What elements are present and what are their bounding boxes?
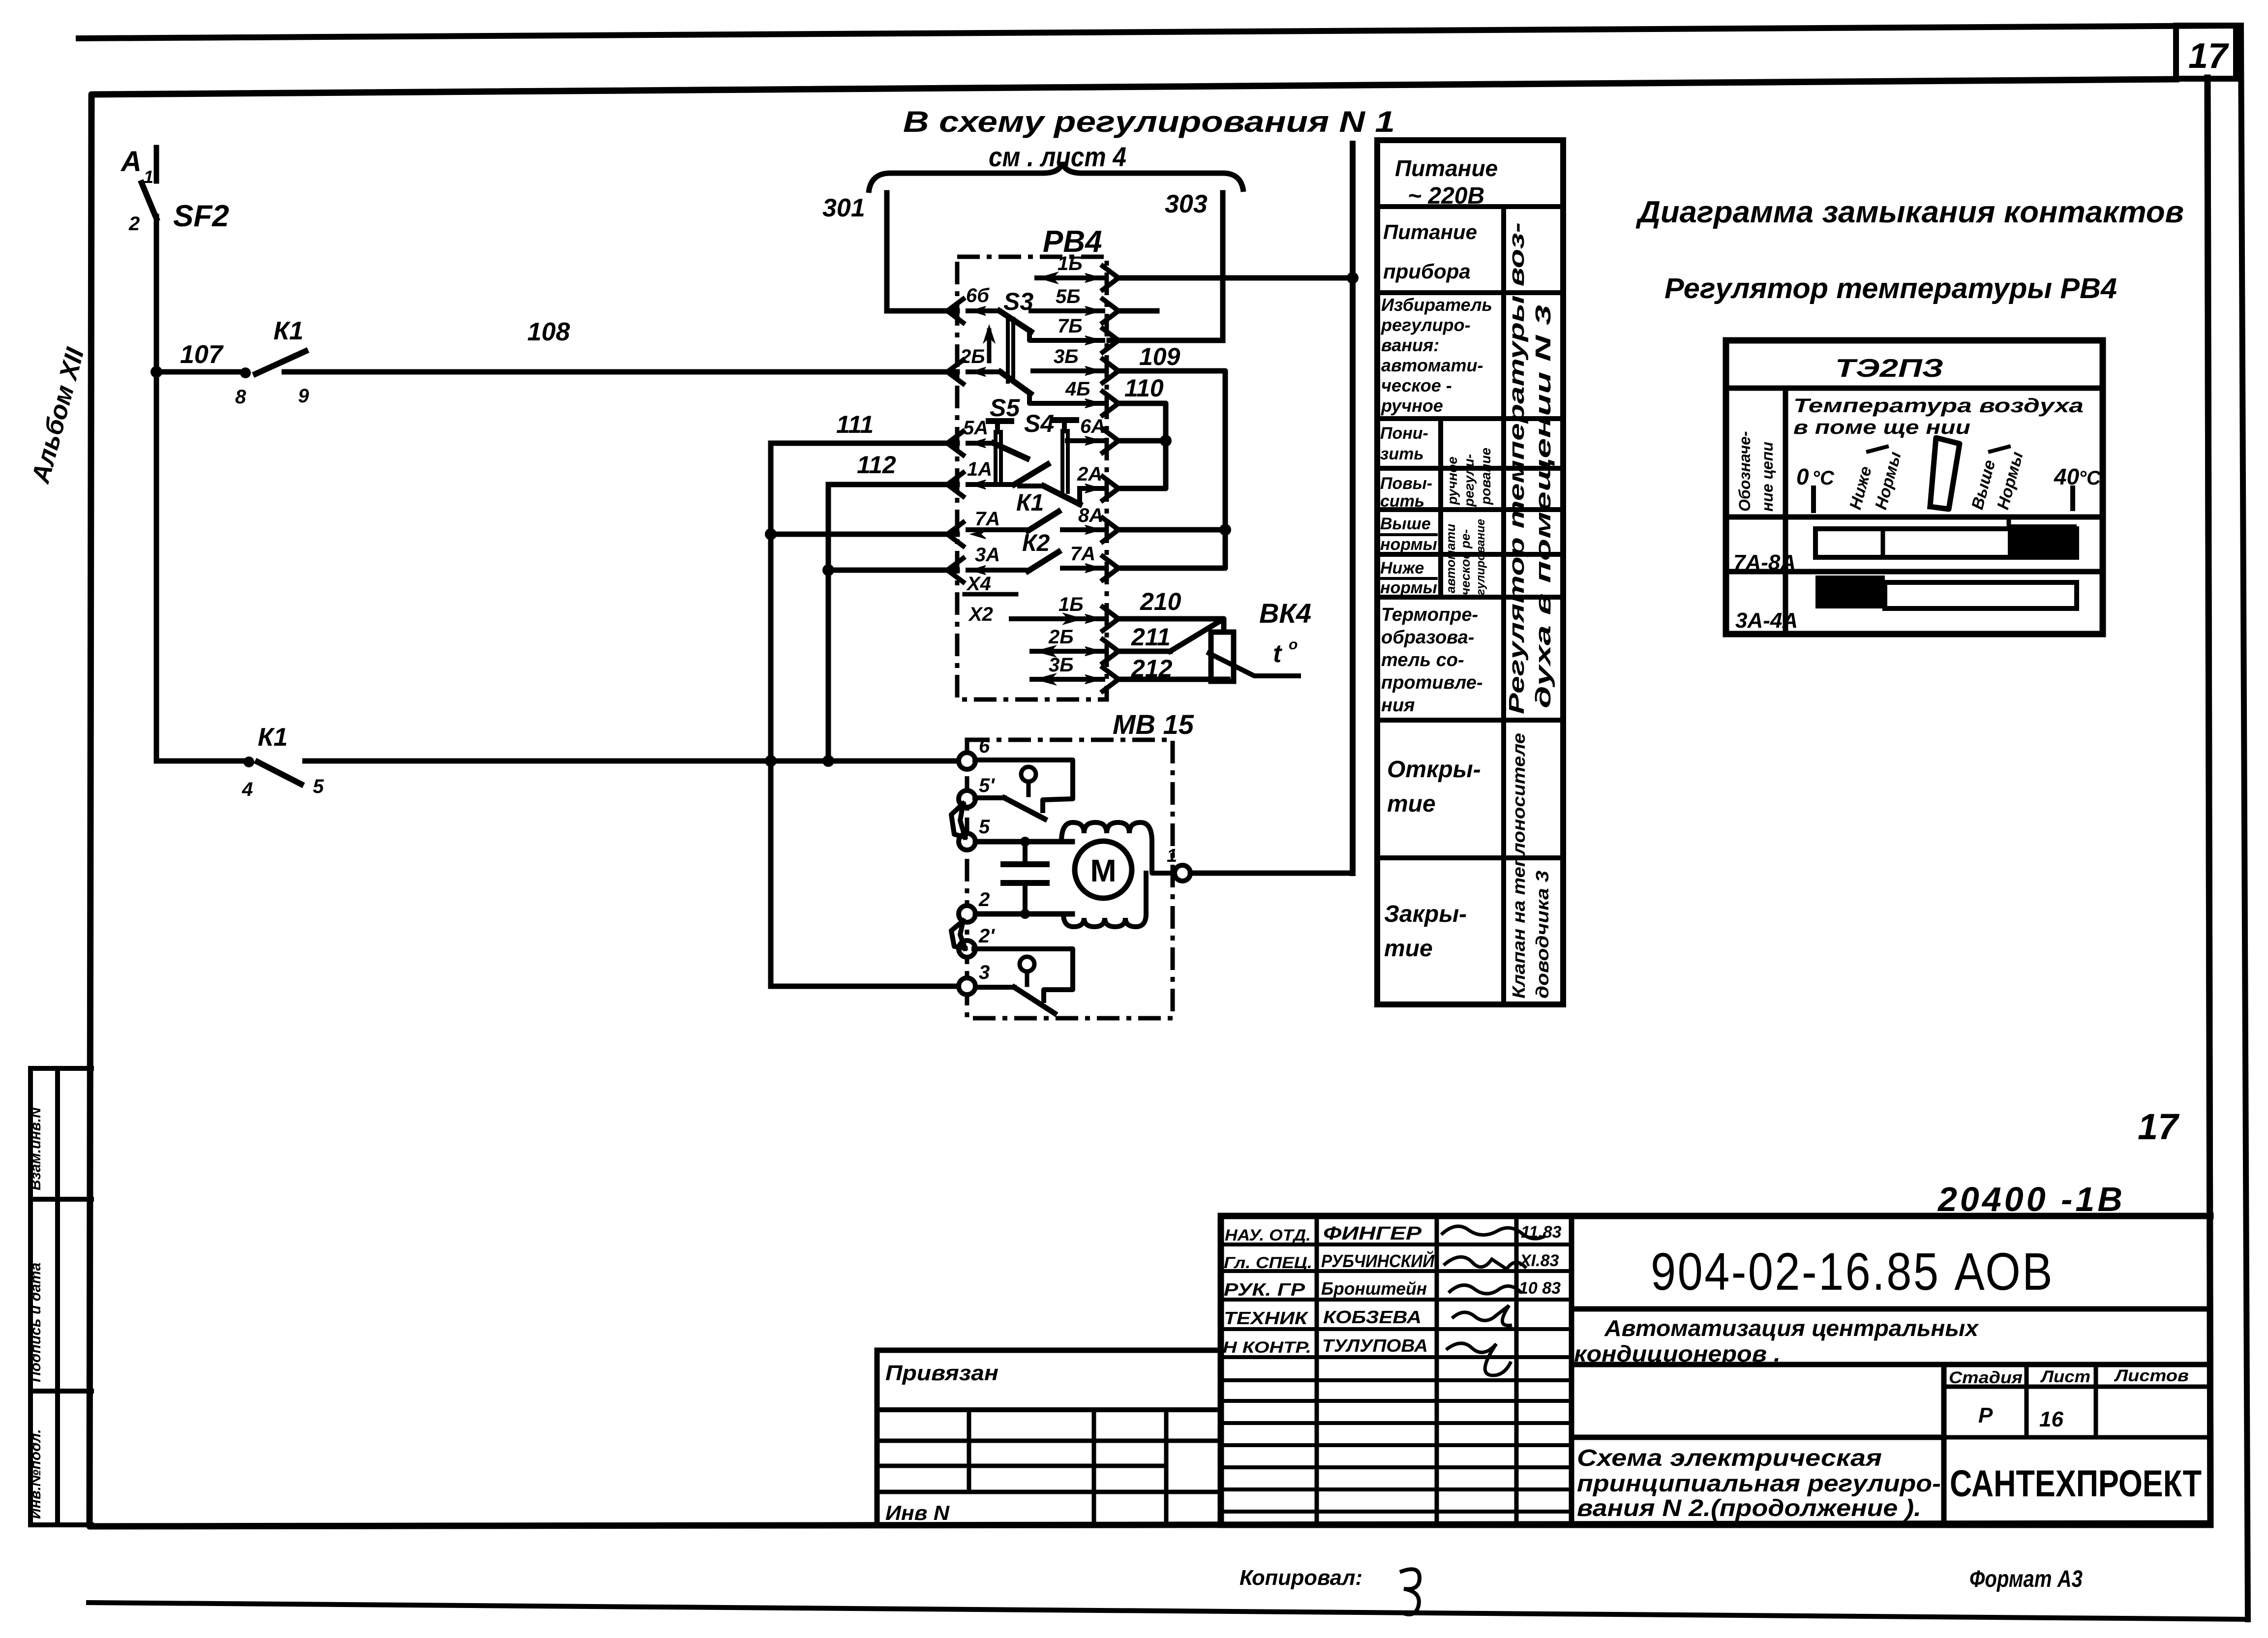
handwritten doc number 20400-1B xyxy=(1937,1180,2125,1218)
legend row power 220V xyxy=(1395,155,1498,209)
svg-text:Р: Р xyxy=(1978,1403,1993,1427)
svg-text:301: 301 xyxy=(822,194,865,222)
svg-text:Выше: Выше xyxy=(1380,515,1431,533)
PB4 right terminal 7Б chevron xyxy=(1103,329,1119,352)
svg-text:Пони-: Пони- xyxy=(1380,424,1428,443)
title block outer frame xyxy=(1221,1216,2210,1525)
svg-text:в поме ще нии: в поме ще нии xyxy=(1793,417,1970,438)
svg-text:Повы-: Повы- xyxy=(1380,474,1432,493)
label S5 xyxy=(990,394,1020,422)
privyazan grid columns xyxy=(969,1410,1166,1525)
wire from SF2 to contact K1(4-5) xyxy=(156,758,249,764)
svg-text:вания:: вания: xyxy=(1381,335,1439,355)
svg-text:ческое ре-: ческое ре- xyxy=(1458,529,1473,595)
PB4 pin line 5B xyxy=(1031,306,1103,315)
svg-text:образова-: образова- xyxy=(1381,627,1474,648)
svg-text:3Б: 3Б xyxy=(1054,346,1079,367)
svg-text:SF2: SF2 xyxy=(173,199,229,233)
TE2P3 table frame xyxy=(1726,340,2103,634)
contact K1 (4-5) blade xyxy=(258,762,301,784)
svg-text:2': 2' xyxy=(978,925,995,947)
stadia list listov verticals xyxy=(1944,1365,2096,1525)
jumper link 5'-5 xyxy=(951,804,965,837)
wire 6B internal xyxy=(968,308,999,313)
document stamp column box xyxy=(30,1068,91,1525)
signature row2 position xyxy=(1224,1254,1312,1272)
svg-text:16: 16 xyxy=(2039,1407,2063,1431)
svg-text:МВ 15: МВ 15 xyxy=(1113,709,1194,740)
svg-text:8А: 8А xyxy=(1078,505,1103,526)
legend rotated automatic regulation xyxy=(1443,519,1487,595)
signature row4 name Kobzeva xyxy=(1323,1307,1421,1327)
PB4 right terminal 5Б chevron xyxy=(1103,299,1119,323)
svg-text:6: 6 xyxy=(979,735,990,757)
label PB4 xyxy=(1043,225,1102,259)
brace over 301-303 xyxy=(869,162,1243,193)
power riser vertical wire xyxy=(1350,144,1356,873)
legend row above norm xyxy=(1380,515,1437,554)
wire 212 to BK4 bottom xyxy=(1117,677,1228,682)
PB4 left terminal label 3А xyxy=(975,544,1000,566)
legend rotated valve caption line1 xyxy=(1509,733,1529,999)
svg-text:гулирование: гулирование xyxy=(1474,519,1487,595)
svg-text:доводчика 3: доводчика 3 xyxy=(1532,871,1552,999)
label BK4 xyxy=(1259,598,1311,629)
wire to PB4 7A xyxy=(771,532,957,537)
capacitor leads xyxy=(1020,837,1030,919)
svg-text:Подпись и дата: Подпись и дата xyxy=(28,1263,44,1382)
svg-text:Ниже: Ниже xyxy=(1380,559,1424,577)
title block signature column lines xyxy=(1317,1216,1572,1525)
legend table outer frame xyxy=(1377,140,1563,1004)
svg-text:3А: 3А xyxy=(975,544,1000,566)
MB15 terminal 2 label xyxy=(978,889,990,910)
value 16 xyxy=(2039,1407,2063,1431)
label 112 xyxy=(857,451,896,479)
wire 6A branch xyxy=(1117,438,1166,444)
PB4 pin line 3B lower xyxy=(1032,674,1103,685)
header Stadia xyxy=(1949,1368,2023,1387)
svg-text:автомати-: автомати- xyxy=(1381,355,1483,375)
limit switch lower roller xyxy=(1020,957,1034,985)
svg-text:110: 110 xyxy=(1124,374,1164,402)
PB4 right terminal 1Б chevron xyxy=(1103,607,1119,631)
wire terminal 5 to motor xyxy=(975,839,1072,845)
svg-text:6А: 6А xyxy=(1080,416,1105,437)
svg-text:кондиционеров .: кондиционеров . xyxy=(1574,1341,1781,1366)
PB4 internal arrowhead at left terminal y=632 xyxy=(971,306,986,315)
wire 110 loop 4B-2A xyxy=(1117,403,1166,488)
svg-text:112: 112 xyxy=(857,451,896,479)
PB4 right terminal label 4Б xyxy=(1065,378,1090,400)
svg-text:1: 1 xyxy=(1167,846,1177,866)
svg-text:S3: S3 xyxy=(1003,288,1033,315)
PB4 pin line 2A xyxy=(1080,484,1103,504)
svg-text:М: М xyxy=(1090,853,1116,888)
TE2P3 row line xyxy=(1726,569,2103,575)
PB4 right terminal 1Б chevron xyxy=(1103,266,1119,290)
svg-text:К2: К2 xyxy=(1022,530,1050,556)
svg-text:7А-8А: 7А-8А xyxy=(1733,550,1796,575)
svg-text:17: 17 xyxy=(2138,1106,2180,1147)
svg-text:109: 109 xyxy=(1139,343,1180,370)
legend row selector xyxy=(1381,295,1492,416)
svg-text:Регулятор температуры РВ4: Регулятор температуры РВ4 xyxy=(1664,273,2117,304)
PB4 right terminal label 1Б xyxy=(1058,594,1084,615)
limit switch upper roller xyxy=(1021,767,1036,795)
svg-text:17: 17 xyxy=(2188,36,2229,76)
MB15 terminal 2' circle xyxy=(959,940,975,957)
svg-text:3А-4А: 3А-4А xyxy=(1735,608,1798,633)
contact K1 (8-9) blade xyxy=(256,351,305,374)
svg-text:S5: S5 xyxy=(990,394,1020,422)
wire 107 xyxy=(156,369,245,375)
label MB15 xyxy=(1113,709,1194,740)
svg-text:Диаграмма замыкания контакто: Диаграмма замыкания контактов xyxy=(1635,195,2184,229)
PB4 internal arrowhead at left terminal y=901 xyxy=(971,439,986,448)
sheet name line1 xyxy=(1577,1445,1882,1471)
svg-text:7А: 7А xyxy=(1070,543,1095,565)
wire riser 111 to MB15 terminal 3 xyxy=(771,984,959,989)
legend row power of device xyxy=(1383,220,1477,283)
svg-text:7Б: 7Б xyxy=(1058,315,1083,337)
svg-text:S4: S4 xyxy=(1024,410,1054,437)
limit switch lower frame xyxy=(974,949,1073,1001)
PB4 left terminal 2Б chevron xyxy=(947,360,963,384)
motor M circle xyxy=(1075,841,1132,898)
phase node A1 label xyxy=(120,146,153,187)
MB15 output terminal 1 circle xyxy=(1175,865,1190,881)
wire riser 111 vertical xyxy=(768,443,774,986)
node terminal 4 of K1 xyxy=(243,757,254,767)
TE2P3 row label 7A-8A xyxy=(1733,550,1796,575)
capacitor bottom plate xyxy=(1003,880,1047,886)
svg-text:0: 0 xyxy=(1796,464,1809,489)
svg-text:духа в помещении N 3: духа в помещении N 3 xyxy=(1531,305,1555,708)
svg-text:2: 2 xyxy=(978,889,990,910)
contact bar 7A-8A tick xyxy=(2007,517,2011,524)
label Inv N xyxy=(885,1501,950,1524)
signature row1 date xyxy=(1521,1223,1562,1242)
S3 mechanical linkage (double line) xyxy=(1008,319,1013,382)
svg-text:9: 9 xyxy=(298,385,309,407)
wire 2B internal xyxy=(968,369,1000,374)
MB15 terminal 6 circle xyxy=(959,753,975,769)
wire SF2 down to node 107 xyxy=(154,216,159,372)
svg-text:Привязан: Привязан xyxy=(885,1361,998,1385)
PB4 right terminal 8А chevron xyxy=(1103,518,1119,542)
PB4 internal arrowhead at left terminal y=985 xyxy=(971,480,986,489)
svg-text:Стадия: Стадия xyxy=(1949,1368,2023,1387)
TE2P3 rotated nizhe normy xyxy=(1846,447,1905,512)
svg-text:Лист: Лист xyxy=(2040,1367,2090,1386)
PB4 pin line 7A out xyxy=(1062,564,1103,573)
label t deg xyxy=(1273,637,1298,668)
svg-text:нормы: нормы xyxy=(1380,535,1437,554)
PB4 pin line 7B xyxy=(1029,331,1103,345)
frame right inner vertical xyxy=(2208,78,2210,1523)
svg-text:2Б: 2Б xyxy=(1048,626,1074,648)
PB4 left terminal label 7А xyxy=(975,508,1000,530)
contact blade to 2A xyxy=(1020,486,1080,504)
svg-text:Листов: Листов xyxy=(2114,1366,2189,1385)
PB4 right terminal label 3Б xyxy=(1049,654,1074,676)
PB4 left terminal label 2Б xyxy=(960,346,985,367)
label S4 xyxy=(1024,410,1054,437)
svg-text:4Б: 4Б xyxy=(1065,378,1090,400)
wire 1A internal with blade xyxy=(968,464,1048,485)
TE2P3 header temperature xyxy=(1793,395,2084,438)
label 108 xyxy=(527,318,570,346)
svg-text:ческое -: ческое - xyxy=(1381,375,1452,395)
switch S4 tee head xyxy=(1054,420,1076,492)
svg-text:тие: тие xyxy=(1387,791,1436,817)
legend table sub column divider xyxy=(1438,419,1443,597)
terminal label 8 xyxy=(235,386,246,408)
PB4 pin line 8A xyxy=(1062,525,1103,534)
PB4 right terminal 2Б chevron xyxy=(1103,639,1119,663)
PB4 right terminal label 6А xyxy=(1080,416,1105,437)
organization SANTEHPROEKT xyxy=(1950,1463,2202,1505)
svg-text:5: 5 xyxy=(313,776,324,797)
motor winding upper xyxy=(1061,822,1152,842)
stamp label Vzam.inv.N xyxy=(28,1107,44,1190)
legend row lower xyxy=(1380,424,1428,463)
legend row below norm xyxy=(1380,559,1437,597)
PB4 right terminal 6А chevron xyxy=(1103,429,1119,453)
contact bar 3A-4A outline xyxy=(1885,582,2077,608)
signature row3 name Bronshteyn xyxy=(1321,1278,1427,1299)
MB15 terminal 6 label xyxy=(979,735,990,757)
node terminal 8 of K1 xyxy=(240,367,251,378)
motor right lead xyxy=(1146,842,1175,914)
svg-text:Копировал:: Копировал: xyxy=(1240,1566,1362,1590)
junction 8A loop xyxy=(1219,524,1231,536)
legend rotated regulator caption line2 xyxy=(1531,305,1555,708)
svg-text:ручное: ручное xyxy=(1445,456,1460,505)
TE2P3 setpoint parallelogram xyxy=(1930,438,1960,509)
svg-text:5А: 5А xyxy=(963,417,988,439)
svg-text:Гл. СПЕЦ.: Гл. СПЕЦ. xyxy=(1224,1254,1312,1272)
note line 1 v shemu regulirovaniya xyxy=(903,105,1395,138)
svg-text:К1: К1 xyxy=(258,723,288,752)
svg-text:ТЭ2ПЗ: ТЭ2ПЗ xyxy=(1835,354,1943,383)
svg-text:2: 2 xyxy=(128,213,140,235)
svg-text:210: 210 xyxy=(1140,588,1181,615)
svg-text:5Б: 5Б xyxy=(1056,286,1081,307)
sheet outer top border line xyxy=(79,26,2237,38)
setpoint arrow up xyxy=(984,326,995,361)
MB15 terminal 5 circle xyxy=(959,833,975,850)
project name cell line xyxy=(1572,1362,2210,1367)
svg-text:o: o xyxy=(1289,637,1298,653)
PB4 pin line 1B bidirectional arrow xyxy=(1037,273,1103,283)
contact bar 7A-8A divider xyxy=(1881,529,1885,557)
svg-text:10 83: 10 83 xyxy=(1519,1279,1561,1298)
legend rotated valve caption line2 xyxy=(1532,871,1552,999)
svg-text:Х2: Х2 xyxy=(968,604,993,625)
signature squiggle Finger xyxy=(1441,1226,1546,1239)
capacitor top plate xyxy=(1003,861,1047,867)
wire 111 to PB4 5A xyxy=(771,441,957,446)
label K1 upper contact xyxy=(273,317,303,345)
wire SF2 vertical down to K1 4-5 row xyxy=(154,372,159,761)
svg-text:Откры-: Откры- xyxy=(1387,757,1481,783)
wire 301 to PB4 6B xyxy=(887,308,957,314)
svg-text:6б: 6б xyxy=(966,285,990,306)
limit switch upper blade xyxy=(975,798,1045,819)
privyazan grid frame xyxy=(877,1350,1221,1525)
valve actuator MB15 boundary (dash-dot) xyxy=(967,740,1173,1018)
svg-text:САНТЕХПРОЕКТ: САНТЕХПРОЕКТ xyxy=(1950,1463,2202,1505)
signature squiggle Bronshteyn xyxy=(1449,1285,1521,1294)
TE2P3 scale 0C xyxy=(1796,464,1835,489)
PB4 right terminal label 7А xyxy=(1070,543,1095,565)
PB4 left terminal 5А chevron xyxy=(947,431,963,455)
junction 3A xyxy=(822,564,834,576)
svg-text:Питание: Питание xyxy=(1395,155,1498,181)
svg-text:ручное: ручное xyxy=(1381,395,1443,416)
svg-text:противле-: противле- xyxy=(1381,672,1483,693)
PB4 internal arrowhead at left terminal y=756 xyxy=(971,367,986,376)
jumper link 2-2' xyxy=(951,921,965,948)
svg-text:212: 212 xyxy=(1131,655,1173,682)
diagram title line1 xyxy=(1635,195,2184,229)
svg-text:Инв N: Инв N xyxy=(885,1501,950,1524)
junction with riser 112 xyxy=(822,755,834,767)
svg-text:прибора: прибора xyxy=(1383,260,1471,283)
svg-text:ВК4: ВК4 xyxy=(1259,598,1311,629)
signature row2 date xyxy=(1519,1251,1559,1270)
signature squiggle Rubchinskiy xyxy=(1444,1257,1526,1269)
label 303 xyxy=(1165,190,1208,218)
switch S3 blade xyxy=(999,311,1031,332)
switch S5 tee head xyxy=(989,421,1011,481)
svg-text:КОБЗЕВА: КОБЗЕВА xyxy=(1323,1307,1421,1327)
junction 7A xyxy=(765,528,777,540)
svg-text:t: t xyxy=(1273,639,1283,668)
MB15 terminal 5 label xyxy=(979,816,990,838)
label K2 inside PB4 xyxy=(1022,530,1050,556)
svg-text:К1: К1 xyxy=(273,317,303,345)
svg-text:РУБЧИНСКИЙ: РУБЧИНСКИЙ xyxy=(1321,1250,1435,1271)
header Listov xyxy=(2114,1366,2189,1385)
svg-text:Обозначе-: Обозначе- xyxy=(1736,431,1754,512)
TE2P3 header row line xyxy=(1726,515,2103,520)
sheet bottom edge line xyxy=(89,1603,2248,1619)
svg-text:ние цепи: ние цепи xyxy=(1758,442,1776,512)
MB15 terminal 3 label xyxy=(979,962,990,983)
wire 108 to PB4 2B input xyxy=(284,369,957,375)
note line 2 sm list 4 xyxy=(989,141,1126,172)
svg-text:регули-: регули- xyxy=(1461,454,1477,507)
label S3 xyxy=(1003,288,1033,315)
svg-text:В схему регулирования N 1: В схему регулирования N 1 xyxy=(903,105,1395,138)
svg-text:107: 107 xyxy=(180,340,224,369)
contact bar 7A-8A outline xyxy=(1815,529,2077,557)
legend row raise xyxy=(1380,474,1432,511)
label Format A3 xyxy=(1969,1566,2083,1592)
signature row1 name Finger xyxy=(1323,1223,1422,1244)
BK4 sensor diagonal lead xyxy=(1209,653,1299,676)
wire 8A branch xyxy=(1117,527,1225,533)
svg-text:303: 303 xyxy=(1165,190,1208,218)
svg-text:Бронштейн: Бронштейн xyxy=(1321,1278,1427,1299)
sheet name line2 xyxy=(1577,1471,1941,1497)
legend rotated regulator caption line1 xyxy=(1505,222,1529,714)
limit switch lower blade xyxy=(976,987,1055,1013)
label 109 xyxy=(1139,343,1180,370)
PB4 right terminal 3Б chevron xyxy=(1103,667,1119,691)
PB4 right terminal 3Б chevron xyxy=(1103,359,1119,383)
wire 112 to PB4 1A xyxy=(828,482,957,487)
svg-text:сить: сить xyxy=(1380,492,1424,511)
wire stub from A1 xyxy=(154,148,159,181)
title block signature row lines xyxy=(1221,1244,1572,1512)
svg-text:20400 -1В: 20400 -1В xyxy=(1937,1180,2125,1218)
legend table row lines xyxy=(1377,207,1563,858)
svg-text:автомати: автомати xyxy=(1443,524,1458,593)
legend row thermal resistance xyxy=(1381,605,1483,716)
wire 109 loop 3B-8A-7A xyxy=(1117,371,1225,568)
svg-text:1А: 1А xyxy=(967,458,992,480)
svg-text:тие: тие xyxy=(1384,936,1433,962)
PB4 right terminal 4Б chevron xyxy=(1103,392,1119,415)
svg-text:Термопре-: Термопре- xyxy=(1381,605,1478,625)
svg-text:Схема электрическая: Схема электрическая xyxy=(1577,1445,1882,1471)
svg-text:5': 5' xyxy=(979,775,995,796)
svg-text:2Б: 2Б xyxy=(960,346,985,367)
circuit breaker SF2 blade xyxy=(142,183,156,218)
stadia value row line xyxy=(1572,1435,2210,1440)
svg-text:РУК. ГР: РУК. ГР xyxy=(1224,1279,1305,1300)
PB4 left terminal 7А chevron xyxy=(947,522,963,546)
signature row5 name Tulupova xyxy=(1322,1335,1428,1356)
contact K2 inside PB4 xyxy=(968,552,1058,571)
project name line2 xyxy=(1574,1341,1781,1366)
document number cell line xyxy=(1572,1306,2210,1312)
svg-text:Избиратель: Избиратель xyxy=(1381,295,1492,315)
resistance thermometer BK4 body xyxy=(1211,632,1234,681)
PB4 right terminal label 5Б xyxy=(1056,286,1081,307)
TE2P3 scale 0C tick xyxy=(1811,488,1816,511)
svg-text:Клапан на теплоносителе: Клапан на теплоносителе xyxy=(1509,733,1529,999)
label 301 xyxy=(822,194,865,222)
svg-text:Закры-: Закры- xyxy=(1384,901,1467,927)
signature row5 position xyxy=(1223,1338,1311,1356)
svg-text:°С: °С xyxy=(2079,467,2101,489)
label Kopiroval xyxy=(1240,1566,1420,1614)
wire 5B stub xyxy=(1117,308,1157,314)
stamp label Podpis i data xyxy=(28,1263,44,1382)
sheet name line3 xyxy=(1577,1495,1921,1521)
MB15 terminal 3 circle xyxy=(959,978,975,995)
wire 303 from PB4 7B xyxy=(1109,338,1223,343)
svg-text:К1: К1 xyxy=(1016,490,1044,516)
PB4 left terminal 1А chevron xyxy=(947,473,963,496)
svg-text:ТУЛУПОВА: ТУЛУПОВА xyxy=(1322,1335,1428,1356)
terminal label 4 xyxy=(242,779,253,800)
label 210 xyxy=(1140,588,1181,615)
PB4 internal arrowhead at left terminal y=1159 xyxy=(971,566,986,575)
PB4 left terminal 6б chevron xyxy=(947,299,963,323)
svg-text:40: 40 xyxy=(2054,464,2080,489)
label 107 xyxy=(180,340,224,369)
wire 303 vertical xyxy=(1220,193,1226,340)
MB15 terminal 2 circle xyxy=(959,906,975,922)
PB4 left terminal label 6б xyxy=(966,285,990,306)
contact K1 inside PB4 xyxy=(968,512,1058,531)
